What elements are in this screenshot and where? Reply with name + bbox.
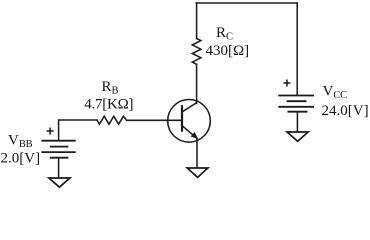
transistor Q1 emitter diagonal [183, 126, 197, 138]
svg-text:2.0[V]: 2.0[V] [1, 151, 41, 167]
svg-text:4.7[KΩ]: 4.7[KΩ] [84, 97, 133, 113]
transistor Q1 base bar [181, 106, 183, 130]
battery V_CC plate 1 long [278, 95, 314, 97]
battery V_BB plate 3 long [41, 151, 75, 153]
transistor Q1 emitter arrow [192, 133, 198, 138]
wire V_BB to ground [58, 158, 60, 178]
resistor R_B [97, 116, 127, 124]
wire V_CC branch [296, 3, 298, 95]
battery V_BB [41, 141, 75, 158]
battery V_CC plate 2 short [287, 100, 307, 102]
plus sign V_BB [47, 128, 54, 135]
wire V_BB to R_B [59, 120, 97, 140]
wire R_C to collector [196, 64, 198, 103]
transistor Q1 collector diagonal [183, 103, 197, 112]
wire collector branch upper [196, 3, 198, 39]
svg-text:24.0[V]: 24.0[V] [322, 103, 369, 119]
resistor R_C [192, 39, 201, 65]
svg-text:RC: RC [216, 25, 233, 43]
svg-text:RB: RB [102, 79, 119, 97]
wire V_CC to ground [296, 112, 298, 132]
svg-text:VCC: VCC [323, 84, 348, 102]
wire base [127, 119, 183, 121]
battery V_BB plate 1 long [41, 140, 75, 142]
wire top rail [196, 2, 297, 4]
svg-text:VBB: VBB [8, 133, 33, 151]
svg-text:430[Ω]: 430[Ω] [206, 43, 250, 59]
battery V_CC plate 4 short [288, 111, 308, 113]
battery V_BB plate 2 short [50, 146, 69, 148]
battery V_CC plate 3 long [278, 106, 314, 108]
ground (V_CC) [287, 132, 308, 141]
battery V_CC [278, 96, 314, 112]
battery V_BB plate 4 short [50, 157, 69, 159]
wire emitter down [196, 138, 198, 168]
ground (emitter) [187, 168, 208, 177]
ground (V_BB) [49, 178, 70, 187]
transistor Q1 circle [168, 100, 211, 143]
plus sign V_CC [284, 80, 291, 87]
